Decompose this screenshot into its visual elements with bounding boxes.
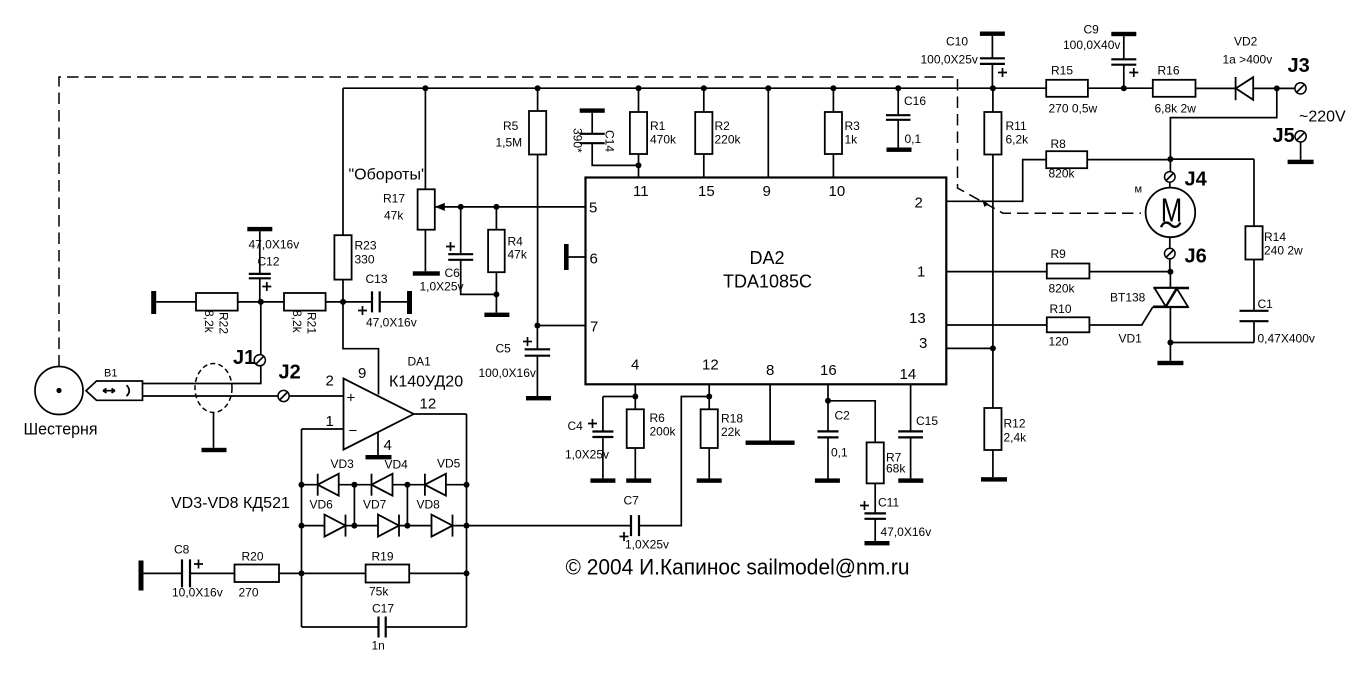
svg-text:R16: R16 xyxy=(1158,64,1180,78)
wire terminal to C8 xyxy=(144,572,183,574)
wire rail to R3 xyxy=(832,88,834,112)
wire chip pin4 down xyxy=(634,384,636,409)
capacitor C1 xyxy=(1240,311,1269,321)
svg-text:R11: R11 xyxy=(1006,119,1027,133)
node J3 xyxy=(1274,85,1280,91)
svg-text:R10: R10 xyxy=(1050,302,1072,316)
wire node to J4 xyxy=(1169,159,1171,171)
wire C1 bottom xyxy=(1253,321,1255,342)
svg-text:11: 11 xyxy=(633,183,649,200)
node rail pin9 xyxy=(765,85,771,91)
svg-text:12: 12 xyxy=(420,396,437,413)
svg-text:+: + xyxy=(347,390,356,407)
feedback left rail xyxy=(301,429,303,627)
wire node to triac xyxy=(1169,272,1171,288)
svg-text:1,5M: 1,5M xyxy=(496,136,523,150)
svg-text:VD5: VD5 xyxy=(437,457,461,471)
triac VD1 xyxy=(1153,288,1189,307)
wire op-amp output pin12 xyxy=(414,413,467,415)
node row2 a xyxy=(351,523,357,529)
svg-text:VD3: VD3 xyxy=(331,457,355,471)
svg-text:2: 2 xyxy=(326,373,334,390)
ground below pickup xyxy=(202,448,227,452)
wire B1 top to J1 riser xyxy=(143,302,261,384)
svg-text:C7: C7 xyxy=(624,494,640,508)
svg-text:R2: R2 xyxy=(715,119,731,133)
svg-text:47k: 47k xyxy=(508,248,528,262)
wire R18 to ground xyxy=(708,448,710,478)
svg-text:14: 14 xyxy=(900,366,917,383)
wire chip pin13 to R10 xyxy=(946,324,1047,326)
wire C7 to pin12 node xyxy=(639,397,709,526)
svg-text:R21: R21 xyxy=(305,312,319,334)
wire R20 to left rail xyxy=(279,572,302,574)
svg-text:13: 13 xyxy=(909,310,926,327)
connector J5 xyxy=(1295,131,1306,142)
terminal bar left of C8 xyxy=(139,561,144,591)
resistor R6 xyxy=(627,409,644,448)
svg-text:6: 6 xyxy=(590,251,598,268)
R17 wiper wire to pin5 xyxy=(435,206,586,208)
resistor R16 xyxy=(1153,80,1196,97)
node pin4 xyxy=(632,394,638,400)
capacitor C10 xyxy=(980,58,1005,64)
svg-text:R12: R12 xyxy=(1004,417,1026,431)
svg-text:7: 7 xyxy=(590,319,598,336)
diode VD7 xyxy=(378,515,399,537)
ground below J5 xyxy=(1288,160,1314,164)
svg-text:1a >400v: 1a >400v xyxy=(1223,53,1273,67)
ground below R17 xyxy=(413,271,440,275)
node rail R5 xyxy=(535,85,541,91)
motor tilde xyxy=(1161,223,1180,228)
wire R19 to right rail xyxy=(409,572,466,574)
resistor R7 xyxy=(867,442,884,483)
svg-text:1,0X25v: 1,0X25v xyxy=(420,280,464,294)
svg-text:C15: C15 xyxy=(916,414,938,428)
wire C10 top xyxy=(991,36,993,58)
wire R15 to C9 node xyxy=(1088,87,1153,89)
resistor R20 xyxy=(235,565,280,583)
node R4/C6 ground xyxy=(493,291,499,297)
wire R8 to motor node xyxy=(1087,159,1170,161)
node right rail row3 xyxy=(464,570,470,576)
svg-text:R9: R9 xyxy=(1051,247,1067,261)
svg-text:47,0X16v: 47,0X16v xyxy=(366,316,417,330)
svg-text:В1: В1 xyxy=(104,368,117,380)
wire node to motor top wire right to R14 xyxy=(1170,158,1254,160)
wire motor node to R14 xyxy=(1253,159,1255,226)
wire C4 bottom xyxy=(602,437,604,478)
node row2 left xyxy=(299,523,305,529)
capacitor C8 xyxy=(182,559,190,587)
svg-text:VD7: VD7 xyxy=(363,498,387,512)
svg-text:VD6: VD6 xyxy=(310,498,334,512)
row connector a xyxy=(353,485,355,526)
wire left rail to R19 xyxy=(302,572,366,574)
resistor R14 xyxy=(1245,226,1262,259)
svg-text:270 0,5w: 270 0,5w xyxy=(1049,102,1098,116)
wire C9 bottom xyxy=(1123,65,1125,89)
svg-text:C16: C16 xyxy=(904,94,926,108)
ground below C15 xyxy=(898,478,923,482)
plus C11 xyxy=(860,501,869,510)
svg-text:C8: C8 xyxy=(174,543,190,557)
wire rail to R17 xyxy=(424,88,426,189)
wire R23 bottom to node xyxy=(342,280,344,302)
wire node to R4 xyxy=(495,207,497,230)
svg-text:"Обороты': "Обороты' xyxy=(349,167,425,184)
node wiper C6 xyxy=(458,204,464,210)
wire R12 to ground xyxy=(992,450,994,477)
resistor R19 xyxy=(366,565,410,583)
svg-text:820k: 820k xyxy=(1049,282,1076,296)
top supply rail xyxy=(343,87,1046,89)
capacitor C16 xyxy=(886,115,911,120)
svg-text:R6: R6 xyxy=(650,411,666,425)
svg-text:R8: R8 xyxy=(1051,137,1067,151)
svg-text:R17: R17 xyxy=(383,192,405,206)
wire C5 bottom xyxy=(536,356,538,396)
ground below C11 xyxy=(865,541,890,545)
wire R9 to motor node xyxy=(1089,271,1170,273)
diode VD8 xyxy=(432,515,453,537)
wire triac to ground node xyxy=(1169,307,1171,361)
resistor R10 xyxy=(1047,317,1090,332)
wire R5 to pin7 node xyxy=(537,155,539,326)
svg-text:100,0X16v: 100,0X16v xyxy=(479,366,536,380)
node pin7/C5 xyxy=(534,323,540,329)
svg-text:J3: J3 xyxy=(1288,55,1310,77)
wire rail to C16 xyxy=(897,88,899,115)
arrowhead on mechanical link xyxy=(982,200,989,208)
wire C6 bottom xyxy=(461,260,497,295)
motor M1 circle xyxy=(1146,188,1196,238)
wire R21 to node xyxy=(326,301,343,303)
node row1 right xyxy=(464,482,470,488)
svg-text:VD8: VD8 xyxy=(417,498,441,512)
capacitor C6 xyxy=(448,254,473,260)
wire chip pin1 to R9 xyxy=(946,271,1047,273)
svg-text:240 2w: 240 2w xyxy=(1264,244,1303,258)
wire op-amp minus input xyxy=(302,428,344,430)
plus C5 xyxy=(523,337,532,346)
resistor R22 xyxy=(196,293,238,311)
wire J5 to ground xyxy=(1300,142,1302,160)
svg-text:VD2: VD2 xyxy=(1234,35,1258,49)
wire pin7 xyxy=(537,325,585,327)
resistor R5 xyxy=(529,111,546,155)
sensor B1 curve xyxy=(127,385,130,396)
wire C4 top xyxy=(602,397,604,432)
capacitor C2 xyxy=(818,431,839,437)
diode VD6 xyxy=(325,515,346,537)
svg-text:6,2k: 6,2k xyxy=(1006,133,1030,147)
terminal bar pin6 xyxy=(564,244,569,270)
wire J6 to node xyxy=(1169,259,1171,272)
node C9 xyxy=(1121,85,1127,91)
svg-text:R4: R4 xyxy=(508,235,524,249)
svg-text:8,2k: 8,2k xyxy=(202,310,216,334)
wire rail to chip pin9 xyxy=(767,88,769,177)
wire terminal to R22 xyxy=(156,301,196,303)
wire C15 bottom xyxy=(910,437,912,478)
ground below R18 xyxy=(697,478,722,482)
wire R2 to chip pin15 xyxy=(703,154,705,178)
plus C6 xyxy=(446,242,455,251)
connector J1 xyxy=(254,355,265,366)
wire VD2 to J3 xyxy=(1253,87,1295,89)
svg-text:2,4k: 2,4k xyxy=(1004,431,1028,445)
resistor R18 xyxy=(701,409,718,448)
plus C7 xyxy=(620,532,629,541)
wire rail corner down to R23 xyxy=(342,88,344,235)
svg-text:8,2k: 8,2k xyxy=(290,310,304,334)
svg-text:C5: C5 xyxy=(496,342,512,356)
node row1 a xyxy=(351,482,357,488)
wire R4 bottom xyxy=(495,272,497,312)
resistor R23 xyxy=(334,235,351,279)
svg-text:VD4: VD4 xyxy=(385,458,409,472)
node pin3/R11/R12 xyxy=(990,345,996,351)
svg-text:6,8k 2w: 6,8k 2w xyxy=(1155,102,1197,116)
diode VD3 xyxy=(318,474,339,496)
node rail C16 xyxy=(895,85,901,91)
node triac bottom / C1 xyxy=(1167,340,1173,346)
svg-text:J1: J1 xyxy=(233,347,255,369)
svg-text:820k: 820k xyxy=(1049,167,1076,181)
svg-text:R5: R5 xyxy=(503,119,519,133)
connector J4 xyxy=(1165,172,1176,183)
wire chip pin14 down xyxy=(910,384,912,431)
wire node to C4 xyxy=(603,396,635,398)
wire R7 to C11 xyxy=(874,483,876,513)
svg-text:2: 2 xyxy=(915,195,923,212)
svg-text:C1: C1 xyxy=(1258,297,1274,311)
node motor bottom / R9 xyxy=(1167,269,1173,275)
svg-text:м: м xyxy=(1135,184,1143,196)
wire C17 left xyxy=(302,626,379,628)
wire R10 to triac gate xyxy=(1089,307,1153,325)
resistor R1 xyxy=(630,112,647,154)
wire C17 right xyxy=(386,626,467,628)
svg-text:J6: J6 xyxy=(1185,246,1207,268)
svg-text:C2: C2 xyxy=(835,409,851,423)
node motor top xyxy=(1167,156,1173,162)
potentiometer R17 xyxy=(418,189,435,229)
resistor R21 xyxy=(284,293,326,311)
svg-text:C14: C14 xyxy=(603,130,617,152)
resistor R11 xyxy=(984,112,1001,155)
wire motor to J6 xyxy=(1169,237,1171,248)
node R1/C14 xyxy=(636,162,642,168)
node row2 b xyxy=(404,523,410,529)
svg-text:10: 10 xyxy=(829,183,846,200)
svg-text:R22: R22 xyxy=(217,312,231,334)
svg-text:~220V: ~220V xyxy=(1299,109,1346,126)
svg-text:16: 16 xyxy=(820,362,837,379)
svg-text:200k: 200k xyxy=(650,425,677,439)
wire node to R7 xyxy=(828,401,875,443)
svg-text:9: 9 xyxy=(763,183,771,200)
svg-text:220k: 220k xyxy=(715,133,742,147)
wire op-amp pin4 ground xyxy=(377,433,379,456)
node left rail row3 xyxy=(299,570,305,576)
svg-text:C17: C17 xyxy=(372,602,394,616)
wire C12 bottom xyxy=(259,278,261,302)
svg-text:VD3-VD8 КД521: VD3-VD8 КД521 xyxy=(171,495,290,512)
ground below C2 xyxy=(815,478,840,482)
resistor R2 xyxy=(695,112,712,154)
svg-text:Шестерня: Шестерня xyxy=(24,420,98,439)
feedback right rail xyxy=(466,414,468,627)
svg-text:1: 1 xyxy=(917,264,925,281)
terminal bar right of C13 xyxy=(407,291,412,314)
resistor R3 xyxy=(825,112,842,154)
capacitor C11 xyxy=(864,513,886,518)
svg-text:0,47X400v: 0,47X400v xyxy=(1258,332,1315,346)
terminal bar left of R22 xyxy=(151,291,156,314)
svg-text:120: 120 xyxy=(1049,335,1069,349)
wire B1 bottom to op-amp +input xyxy=(143,395,344,397)
svg-text:DA1: DA1 xyxy=(408,355,432,369)
wire C2 bottom xyxy=(827,437,829,478)
svg-text:47k: 47k xyxy=(384,209,404,223)
wire chip pin8 to ground xyxy=(769,384,771,440)
IC DA2 TDA1085C body xyxy=(586,178,947,385)
wire chip pin12 down xyxy=(708,384,710,409)
svg-text:R18: R18 xyxy=(721,412,743,426)
pickup stem wire xyxy=(213,413,215,448)
svg-text:К140УД20: К140УД20 xyxy=(389,374,463,391)
plus C4 xyxy=(588,419,597,428)
diode row 2 wire to C7 xyxy=(302,525,632,527)
diode VD2 xyxy=(1236,77,1254,100)
svg-text:C6: C6 xyxy=(445,266,461,280)
wire R1 to chip pin11 xyxy=(638,154,640,178)
ground below R12 xyxy=(981,477,1007,481)
connector J2 xyxy=(278,390,289,401)
svg-text:1: 1 xyxy=(326,413,334,430)
wire pin6 xyxy=(569,256,586,258)
wire C14 to node xyxy=(592,143,638,165)
wire node to op-amp pin9 xyxy=(343,302,379,395)
mechanical link dashed line gear-to-motor xyxy=(59,77,1141,367)
node pin12 xyxy=(706,394,712,400)
ground below C5 xyxy=(526,396,551,400)
diode VD4 xyxy=(372,474,393,496)
ground below R6 xyxy=(626,478,651,482)
plus C13 xyxy=(358,306,367,315)
wire C10 bottom xyxy=(991,64,993,88)
wire chip pin2 to R8 xyxy=(946,160,1046,202)
wire rail to R1 xyxy=(638,88,640,112)
svg-text:R1: R1 xyxy=(650,119,666,133)
svg-text:C12: C12 xyxy=(258,255,280,269)
common bar above C9 xyxy=(1111,32,1136,36)
svg-text:100,0X40v: 100,0X40v xyxy=(1063,38,1120,52)
svg-text:10,0X16v: 10,0X16v xyxy=(172,586,223,600)
resistor R9 xyxy=(1047,264,1090,279)
svg-text:VD1: VD1 xyxy=(1119,332,1143,346)
R17 wiper arrowhead xyxy=(435,203,445,211)
node rail R11/C10 xyxy=(990,85,996,91)
wire R22 to R21 through node xyxy=(238,301,284,303)
svg-text:C4: C4 xyxy=(568,419,584,433)
wire rail to R11 xyxy=(992,88,994,112)
node wiper R4 xyxy=(493,204,499,210)
svg-text:470k: 470k xyxy=(650,133,677,147)
svg-text:R19: R19 xyxy=(372,550,394,564)
capacitor C17 xyxy=(379,617,386,638)
wire R11 down to R12 xyxy=(992,155,994,409)
capacitor C13 xyxy=(372,291,380,312)
capacitor C5 xyxy=(525,349,551,355)
capacitor C14 xyxy=(580,134,605,143)
node C12/R22/R21/J1 xyxy=(258,299,264,305)
wire chip pin16 down xyxy=(827,384,829,431)
wire C16 bottom xyxy=(897,120,899,148)
capacitor C12 xyxy=(249,274,271,278)
wire C8 to R20 xyxy=(190,572,235,574)
svg-text:22k: 22k xyxy=(721,425,741,439)
svg-text:12: 12 xyxy=(702,357,719,374)
diode row 1 wire xyxy=(302,484,467,486)
svg-text:R20: R20 xyxy=(242,550,264,564)
wire R6 to ground xyxy=(634,448,636,478)
svg-text:8: 8 xyxy=(766,362,774,379)
pickup coil dashed ellipse xyxy=(195,364,232,413)
wire C14 top xyxy=(591,113,593,134)
svg-text:47,0X16v: 47,0X16v xyxy=(881,525,932,539)
svg-text:0,1: 0,1 xyxy=(905,132,922,146)
svg-text:TDA1085C: TDA1085C xyxy=(723,272,812,292)
wire rail to R2 xyxy=(703,88,705,112)
svg-text:C11: C11 xyxy=(878,496,899,510)
svg-text:C13: C13 xyxy=(366,272,388,286)
capacitor C9 xyxy=(1111,59,1136,64)
svg-text:15: 15 xyxy=(698,183,715,200)
ground op-amp pin4 xyxy=(366,455,392,459)
wire R3 to chip pin10 xyxy=(832,154,834,178)
ground below C16 xyxy=(887,148,912,152)
svg-text:68k: 68k xyxy=(886,462,906,476)
sensor B1 arrow xyxy=(103,389,115,393)
wire J3 node down to motor node xyxy=(1170,88,1276,159)
wire R16 to VD2 xyxy=(1196,87,1236,89)
resistor R4 xyxy=(488,230,505,273)
plus C9 xyxy=(1129,68,1138,77)
capacitor C4 xyxy=(592,432,613,438)
capacitor C7 xyxy=(631,515,639,536)
svg-text:R14: R14 xyxy=(1264,230,1286,244)
wire chip pin3 to node xyxy=(946,347,993,349)
ground below C4 xyxy=(590,478,615,482)
svg-text:C10: C10 xyxy=(946,35,968,49)
svg-text:−: − xyxy=(349,423,358,440)
common bar above C14 xyxy=(580,108,605,112)
gear center dot xyxy=(56,388,61,393)
svg-text:BT138: BT138 xyxy=(1110,291,1146,305)
sensor B1 body xyxy=(86,381,143,400)
svg-text:390*: 390* xyxy=(571,128,585,153)
plus C8 xyxy=(194,560,203,569)
svg-text:3: 3 xyxy=(919,335,927,352)
common bar above C12 xyxy=(247,227,272,231)
svg-text:5: 5 xyxy=(589,200,597,217)
connector J3 xyxy=(1295,83,1306,94)
wire node to C6 xyxy=(460,207,462,254)
